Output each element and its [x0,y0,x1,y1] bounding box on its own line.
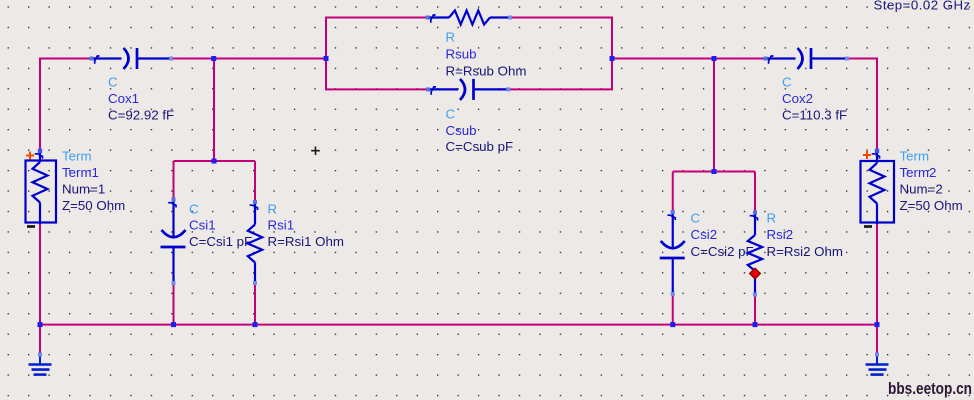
pin Rsi1 p1 [253,200,257,204]
svg-text:R=Rsi1 Ohm: R=Rsi1 Ohm [268,234,344,249]
svg-text:C: C [782,75,792,90]
wire right block drop to Csi2 pin1 [672,172,674,213]
pin ground G2 [875,353,879,357]
svg-text:C=Csi2 pF: C=Csi2 pF [691,244,754,259]
wire riser node A to left RC block [213,59,215,162]
svg-text:Term: Term [62,149,92,164]
svg-text:C: C [189,202,199,217]
wire left block drop to Csi1 pin1 [173,161,175,199]
junction bus at Rsi1 [253,322,258,327]
svg-text:Rsi1: Rsi1 [268,218,295,233]
svg-text:R: R [767,211,777,226]
ground G2 [866,355,889,375]
pin Cox1 p1 [90,57,94,61]
svg-text:Term1: Term1 [62,165,99,180]
pin Cox1 p2 [169,57,173,61]
wire bus to ground G1 [39,325,41,353]
junction bus at Rsi2 [753,322,758,327]
svg-text:bbs.eetop.cn: bbs.eetop.cn [888,380,972,398]
svg-text:R: R [446,30,456,45]
svg-text:Step=0.02 GHz: Step=0.02 GHz [874,0,971,13]
pin Rsi2 p1 [753,211,757,215]
wire bus to ground G2 [876,325,878,353]
wire left RC block top [174,160,256,162]
ground G1 [29,355,52,375]
pin Cox2 p1 [763,57,767,61]
pin Rsi1 p2 [253,281,257,285]
pin Csi1 p1 [172,198,176,202]
pin Csi1 p2 [172,281,176,285]
resistor Rsub [428,11,510,25]
svg-text:Term: Term [900,149,930,164]
wire Rsi2 pin2 to bus [754,295,756,326]
wire Term1 drop from corner to Term1 top pin [39,58,41,150]
svg-text:C=110.3 fF: C=110.3 fF [782,108,847,123]
minus mark Term1 [27,225,35,228]
junction node A on top rail [211,56,216,61]
capacitor Csub [428,79,508,100]
wire Term2 bottom to bus [876,224,878,326]
wire right block drop to Rsi2 pin1 [754,172,756,213]
pin Csi2 p2 [671,292,675,296]
capacitor Csi2 [660,212,685,294]
svg-text:Z=50 Ohm: Z=50 Ohm [900,198,963,213]
pin Csi2 p1 [671,210,675,214]
wire riser node B to right RC block [713,59,715,172]
wire main rail right of block to Cox2 pin1 [612,58,765,60]
junction block left pin [324,56,329,61]
capacitor Csi1 [161,200,186,284]
wire top-left rail from Term1 corner to Cox1 pin1 [40,58,92,59]
port Term1 [26,151,57,225]
junction bus at Term2 [875,322,880,327]
marker red diamond on Rsi2 [750,268,761,279]
junction bus at Csi1 [171,322,176,327]
svg-text:Z=50 Ohm: Z=50 Ohm [62,198,125,213]
minus mark Term2 [864,225,872,228]
junction bus at Csi2 [670,322,675,327]
pin Rsub p1 [426,16,430,20]
junction block right pin [610,56,615,61]
resistor Rsi1 [248,202,262,283]
wire Csi2 pin2 to bus [672,295,674,326]
resistor Rsi2 [748,213,762,295]
svg-text:Csub: Csub [446,123,477,138]
svg-text:Term2: Term2 [900,165,937,180]
pin Rsi2 p2 [753,293,757,297]
svg-text:R: R [268,202,278,217]
wire Rsi1 pin2 to ground bus [254,284,256,326]
wire Rsub/Csub loop rectangle [326,18,612,90]
junction right RC block top [712,169,717,174]
pin ground G1 [38,353,42,357]
wire Term1 bottom to bus [39,224,41,326]
svg-text:Csi2: Csi2 [691,227,718,242]
svg-text:C: C [691,211,701,226]
pin Rsub p2 [508,16,512,20]
port Term2 [861,151,895,225]
svg-text:Cox2: Cox2 [782,91,813,106]
cursor crosshair [311,147,320,156]
wire ground bus [40,324,877,326]
wire right RC block top [673,171,755,173]
junction left RC block top [212,159,217,164]
wire Csi1 pin2 to ground bus [173,284,175,326]
svg-text:Rsub: Rsub [446,47,477,62]
svg-text:C=92.92 fF: C=92.92 fF [108,108,174,123]
capacitor Cox1 [92,48,172,69]
pin Term1 top [38,149,42,153]
svg-text:C: C [108,75,118,90]
svg-text:Num=1: Num=1 [62,182,105,197]
capacitor Cox2 [765,48,847,69]
junction bus at Term1 [38,322,43,327]
junction node B on top rail [712,56,717,61]
svg-text:C: C [446,107,456,122]
svg-text:Num=2: Num=2 [900,182,943,197]
svg-text:R=Rsub Ohm: R=Rsub Ohm [446,64,527,79]
svg-text:Csi1: Csi1 [189,218,216,233]
pin Cox2 p2 [845,57,849,61]
pin Csub p2 [506,87,510,91]
pin Csub p1 [426,87,430,91]
svg-text:Cox1: Cox1 [108,91,139,106]
svg-text:C=Csub pF: C=Csub pF [446,139,514,154]
plus mark Term2 [863,151,871,159]
svg-text:Rsi2: Rsi2 [767,227,794,242]
svg-text:C=Csi1 pF: C=Csi1 pF [189,234,252,249]
pin Term2 top [875,149,879,153]
wire Cox1 pin2 to Rsub block left pin [171,58,326,60]
svg-text:R=Rsi2 Ohm: R=Rsi2 Ohm [767,244,843,259]
wire left block drop to Rsi1 pin1 [254,161,256,201]
plus mark Term1 [26,152,34,160]
wire Cox2 pin2 to Term2 corner and drop [847,59,877,151]
